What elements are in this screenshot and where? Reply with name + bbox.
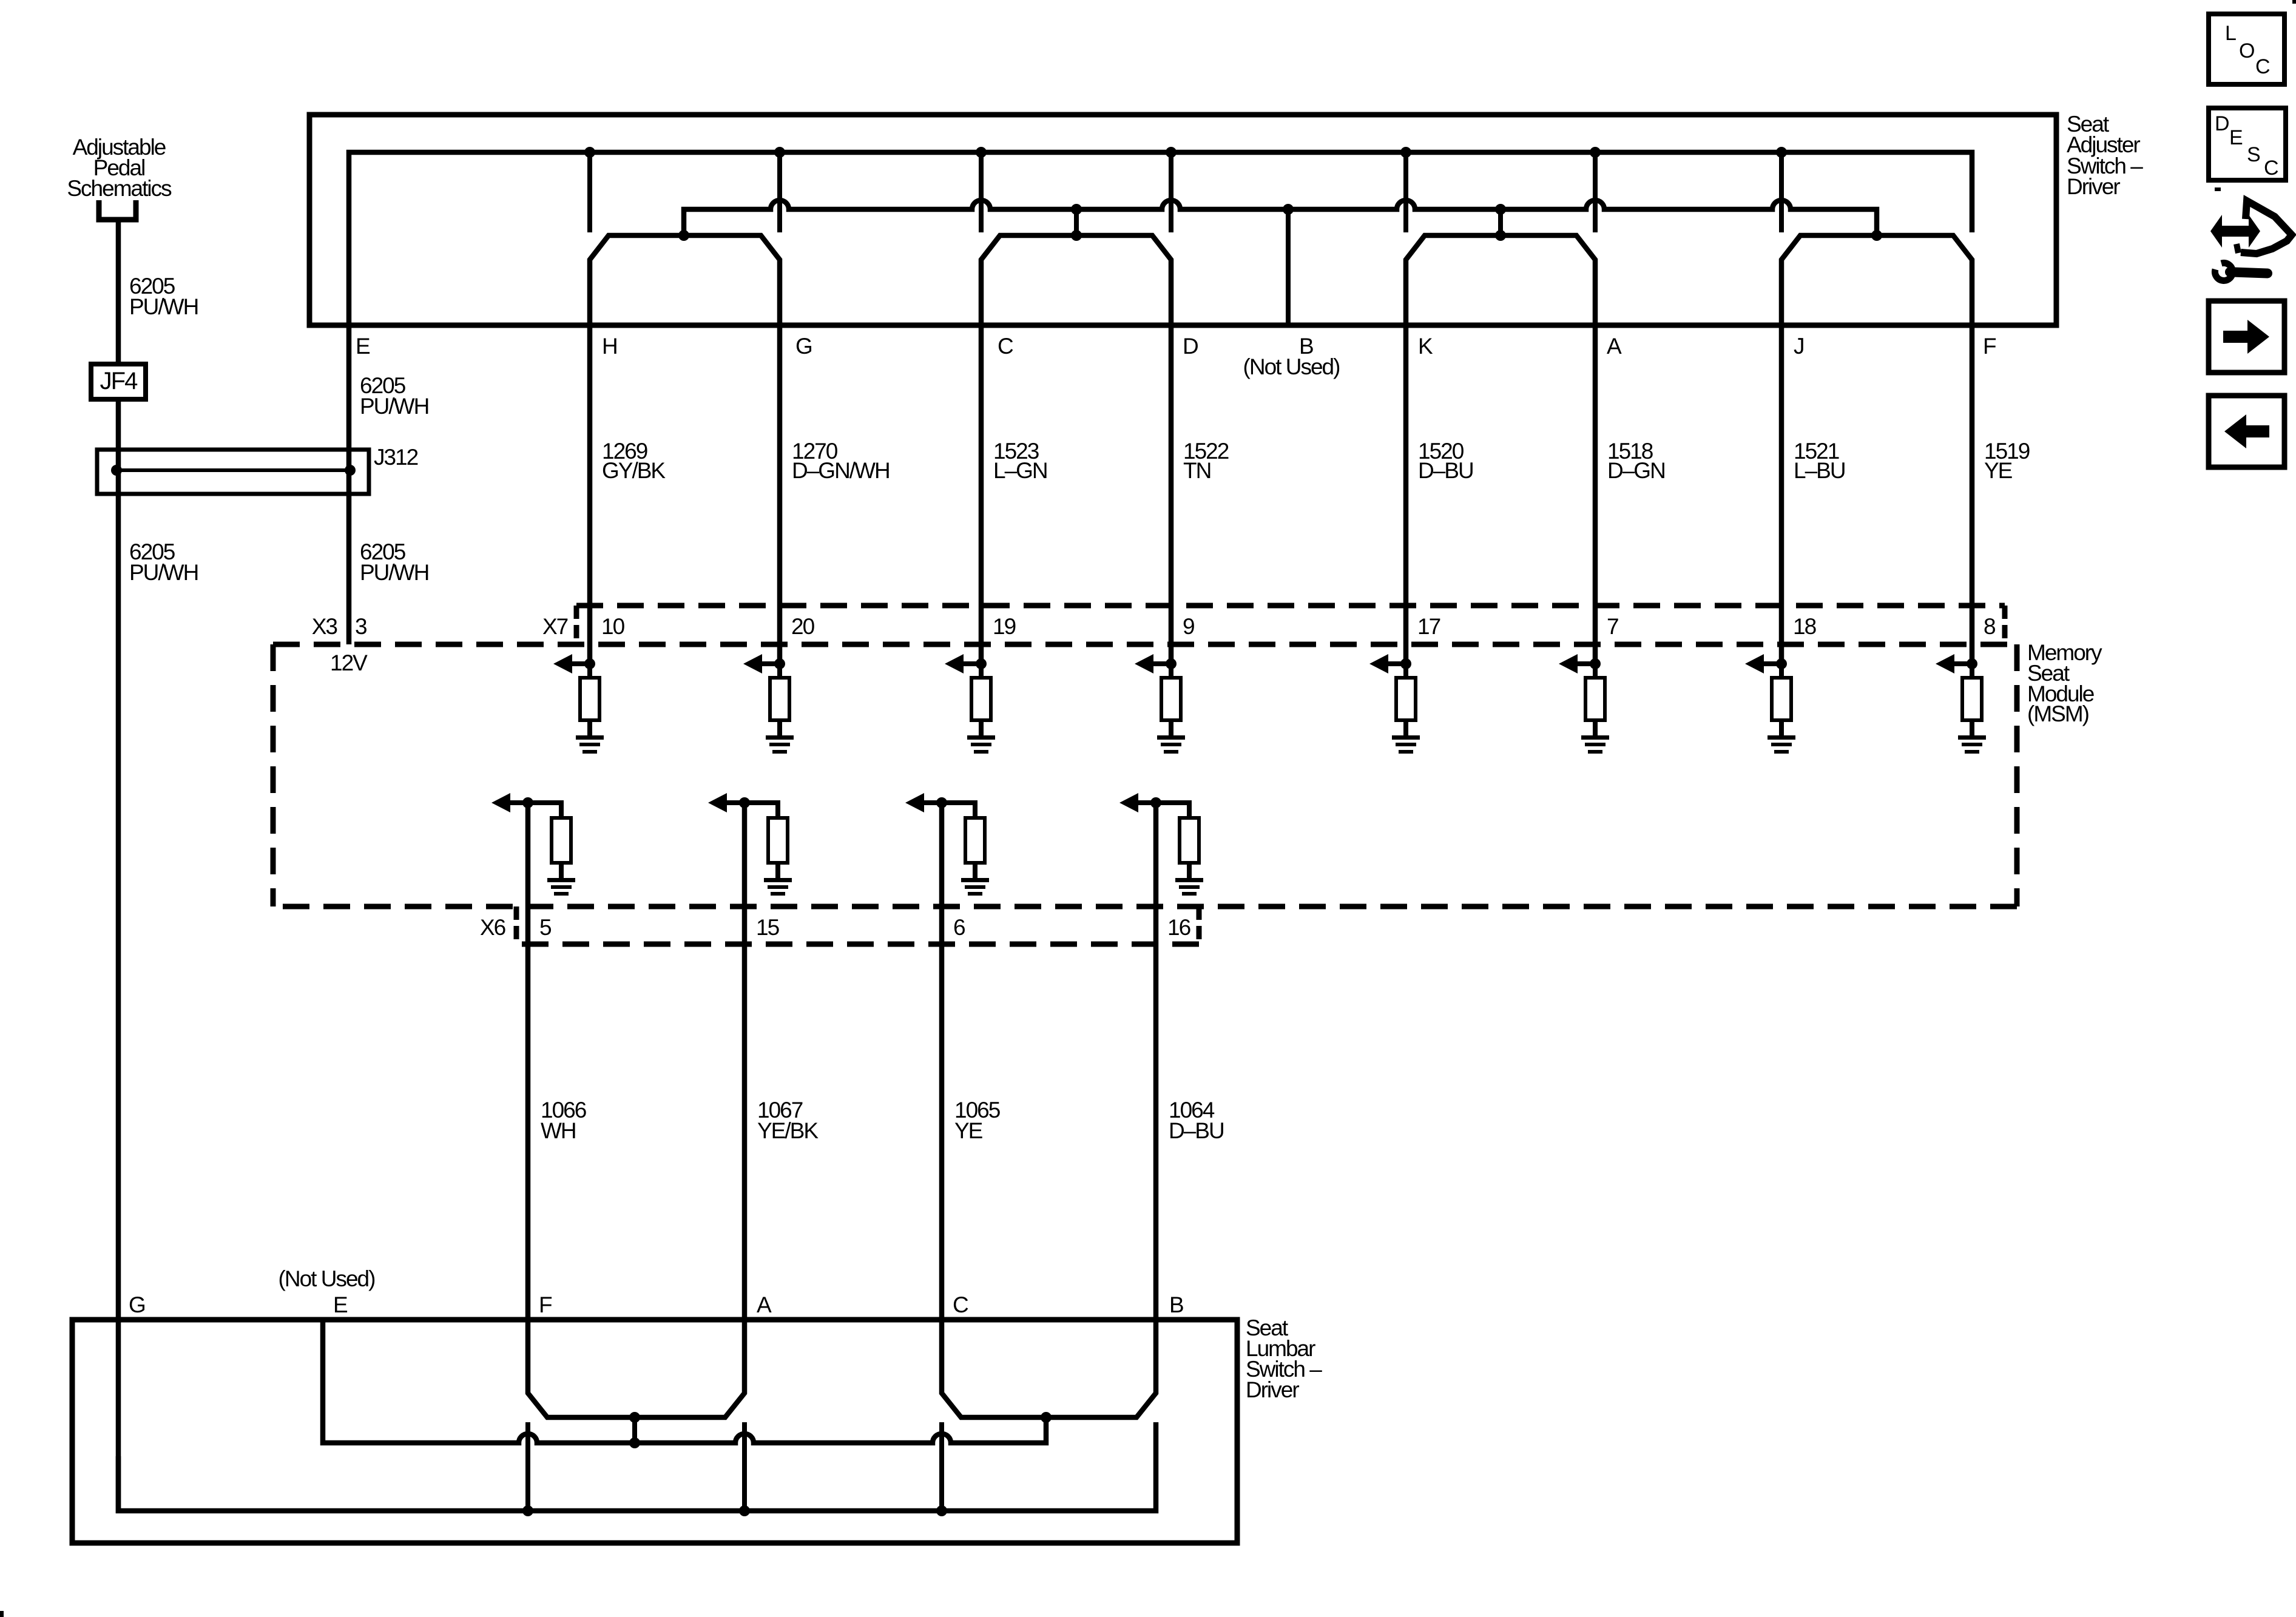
fixed contact stub F to ground bus (lumbar) <box>525 1422 530 1513</box>
wire resistor to ground (pin 5) <box>559 863 564 879</box>
svg-text:D–BU: D–BU <box>1418 458 1473 483</box>
connector X6 strip right dashed <box>1197 906 1202 944</box>
junction dot pin 10 <box>584 658 595 669</box>
svg-text:C: C <box>2264 157 2279 180</box>
svg-text:(Not Used): (Not Used) <box>279 1266 376 1291</box>
page corner speck bottom left <box>0 1611 4 1617</box>
stub jumper bus to K-A bar <box>1498 209 1503 235</box>
fuse JF4 <box>91 364 146 399</box>
svg-text:X7: X7 <box>542 614 568 639</box>
ground (pin 16) <box>1175 878 1203 882</box>
junction dot C-B bar at feed line rise <box>1041 1412 1052 1423</box>
svg-text:D–BU: D–BU <box>1169 1118 1224 1143</box>
junction dot pin 20 <box>774 658 785 669</box>
wire resistor R8 to ground <box>1970 720 1974 737</box>
ground (pin 6) <box>961 878 989 882</box>
svg-text:PU/WH: PU/WH <box>129 294 198 319</box>
wire pin 20 to resistor <box>777 664 782 678</box>
junction dot ground bus at F <box>522 1505 533 1516</box>
ground (pin 18) <box>1768 735 1795 740</box>
svg-text:Driver: Driver <box>2067 174 2120 199</box>
svg-text:J: J <box>1794 334 1804 359</box>
svg-text:YE/BK: YE/BK <box>757 1118 819 1143</box>
signal arrow out of MSM at pin 16 <box>1138 800 1156 805</box>
fixed contact stub A to ground bus (lumbar) <box>742 1422 747 1513</box>
fixed contact stub D <box>1169 152 1173 232</box>
junction dot pin 15 <box>739 797 750 808</box>
junction dot pin 5 <box>522 797 533 808</box>
wire pin B (not used) from jumper bus to box edge <box>1286 209 1291 325</box>
branch pin 5 to resistor <box>528 803 561 818</box>
svg-text:7: 7 <box>1607 614 1618 639</box>
ground (pin 19) <box>967 735 995 740</box>
svg-text:L: L <box>2225 22 2237 45</box>
junction dot supply bus at H <box>584 147 595 158</box>
svg-text:F: F <box>1983 334 1996 359</box>
junction dot supply bus at D <box>1166 147 1177 158</box>
svg-text:D–GN/WH: D–GN/WH <box>792 458 890 483</box>
connector service icon lower tick <box>2237 244 2238 253</box>
ground (pin 20) <box>766 735 794 740</box>
svg-text:D: D <box>1183 334 1198 359</box>
internal jumper bus (second line with hops and end drops) <box>684 200 1877 235</box>
wire pin 7 to resistor <box>1593 664 1598 678</box>
wire resistor to ground (pin 6) <box>973 863 977 879</box>
svg-text:GY/BK: GY/BK <box>602 458 666 483</box>
svg-text:B: B <box>1169 1292 1183 1317</box>
resistor (pull-down at pin 5) <box>552 818 571 863</box>
junction dot jumper bus at K-A stub <box>1495 204 1506 215</box>
junction dot supply bus at J <box>1776 147 1787 158</box>
junction dot K-A bar <box>1495 230 1506 241</box>
page corner speck top right <box>2292 0 2296 4</box>
signal arrow into MSM at pin 17 <box>1388 661 1406 666</box>
wire resistor R9 to ground <box>1169 720 1173 737</box>
signal arrow into MSM at pin 10 <box>572 661 590 666</box>
stub jumper bus to C-D bar <box>1074 209 1079 235</box>
svg-text:A: A <box>1607 334 1622 359</box>
svg-text:5: 5 <box>539 915 552 940</box>
rocker switch K-A (bar, diagonals and pin wires) <box>1406 235 1595 664</box>
Memory Seat Module dashed border left <box>271 644 276 906</box>
svg-text:C: C <box>953 1292 968 1317</box>
wire 6205 PU/WH from bracket to fuse JF4 <box>116 220 121 364</box>
svg-text:20: 20 <box>791 614 815 639</box>
resistor R20 (pull-down at pin 20) <box>770 678 789 720</box>
resistor R7 (pull-down at pin 7) <box>1585 678 1605 720</box>
resistor R19 (pull-down at pin 19) <box>971 678 991 720</box>
svg-text:E: E <box>333 1292 348 1317</box>
fixed contact stub A <box>1593 152 1598 232</box>
svg-text:A: A <box>757 1292 772 1317</box>
Memory Seat Module dashed border right <box>2014 644 2020 906</box>
wire resistor to ground (pin 16) <box>1187 863 1192 879</box>
junction dot feed line at F-A stub <box>629 1437 640 1448</box>
resistor (pull-down at pin 16) <box>1180 818 1199 863</box>
fixed contact stub C to ground bus (lumbar) <box>939 1422 944 1513</box>
ground (pin 9) <box>1157 735 1185 740</box>
svg-text:PU/WH: PU/WH <box>360 560 428 585</box>
connector X7 separator dashed <box>574 606 579 644</box>
junction dot pin 19 <box>976 658 987 669</box>
svg-text:8: 8 <box>1984 614 1995 639</box>
DESC reference box <box>2209 108 2286 180</box>
svg-text:YE: YE <box>954 1118 983 1143</box>
Seat Adjuster Switch - Driver outline box <box>309 115 2056 325</box>
fixed contact stub H <box>587 152 592 232</box>
svg-text:G: G <box>795 334 812 359</box>
connector X6 strip bottom dashed line <box>516 942 1199 947</box>
svg-text:L–BU: L–BU <box>1794 458 1845 483</box>
resistor (pull-down at pin 15) <box>768 818 788 863</box>
junction dot supply bus at C <box>976 147 987 158</box>
svg-text:3: 3 <box>355 614 366 639</box>
svg-text:E: E <box>356 334 370 359</box>
junction dot pin 8 <box>1967 658 1977 669</box>
svg-text:WH: WH <box>541 1118 576 1143</box>
resistor R17 (pull-down at pin 17) <box>1396 678 1416 720</box>
svg-text:18: 18 <box>1793 614 1816 639</box>
svg-text:S: S <box>2247 143 2261 166</box>
Memory Seat Module dashed border bottom <box>273 904 2017 910</box>
junction dot jumper bus at C-D stub <box>1071 204 1082 215</box>
svg-text:TN: TN <box>1183 458 1210 483</box>
signal arrow into MSM at pin 9 <box>1153 661 1171 666</box>
signal arrow into MSM at pin 19 <box>963 661 981 666</box>
connector X7 strip right dashed <box>2002 606 2008 644</box>
svg-text:6: 6 <box>953 915 965 940</box>
wire resistor R17 to ground <box>1403 720 1408 737</box>
svg-text:C: C <box>2255 55 2271 78</box>
rocker switch F-A (lumbar: pin wires, diagonals and bar) <box>528 803 745 1417</box>
connector X6 separator dashed <box>514 906 519 944</box>
signal arrow into MSM at pin 20 <box>761 661 780 666</box>
signal arrow into MSM at pin 7 <box>1577 661 1595 666</box>
fixed contact stub J <box>1779 152 1784 232</box>
ground (pin 15) <box>764 878 792 882</box>
rocker switch C-B (lumbar: pin wires, diagonals and bar) <box>942 803 1156 1417</box>
branch pin 15 to resistor <box>745 803 778 818</box>
ground bus inside lumbar switch with B contact stub <box>118 1422 1156 1511</box>
connector service icon double arrow <box>2221 226 2250 237</box>
junction dot pin 16 <box>1150 797 1161 808</box>
junction dot H-G bar to jumper bus <box>678 230 689 241</box>
svg-text:19: 19 <box>993 614 1016 639</box>
wire pin 8 to resistor <box>1970 664 1974 678</box>
svg-text:16: 16 <box>1167 915 1190 940</box>
junction dot supply bus at A <box>1590 147 1601 158</box>
ground (pin 5) <box>547 878 575 882</box>
off-page bracket to Adjustable Pedal Schematics <box>99 200 136 220</box>
ground (pin 7) <box>1581 735 1609 740</box>
connector X7 strip top dashed line <box>576 603 2005 609</box>
svg-text:X3: X3 <box>312 614 337 639</box>
junction dot ground bus at C <box>936 1505 947 1516</box>
svg-text:PU/WH: PU/WH <box>129 560 198 585</box>
svg-text:Schematics: Schematics <box>67 176 172 201</box>
junction dot supply bus at G <box>774 147 785 158</box>
junction dot pin 7 <box>1590 658 1601 669</box>
junction dot pin 6 <box>936 797 947 808</box>
svg-text:PU/WH: PU/WH <box>360 394 428 419</box>
wire pin 18 to resistor <box>1779 664 1784 678</box>
splice J312 bus bar <box>116 468 350 472</box>
signal arrow into MSM at pin 8 <box>1954 661 1972 666</box>
svg-text:JF4: JF4 <box>100 368 138 394</box>
wire resistor R7 to ground <box>1593 720 1598 737</box>
svg-text:(MSM): (MSM) <box>2027 701 2089 726</box>
resistor (pull-down at pin 6) <box>965 818 985 863</box>
speck below DESC box <box>2215 187 2221 191</box>
wire 6205 PU/WH from JF4 down to splice J312 and Seat Lumbar Switch pin G <box>116 399 121 1513</box>
signal arrow out of MSM at pin 6 <box>923 800 942 805</box>
signal arrow out of MSM at pin 5 <box>510 800 528 805</box>
connector service icon housing outline <box>2241 201 2292 254</box>
junction dot C-D bar <box>1071 230 1082 241</box>
junction dot pin 9 <box>1166 658 1177 669</box>
resistor R9 (pull-down at pin 9) <box>1161 678 1181 720</box>
svg-text:O: O <box>2239 39 2255 62</box>
fixed contact stub K <box>1403 152 1408 232</box>
svg-text:D: D <box>2215 112 2230 135</box>
wire pin 17 to resistor <box>1403 664 1408 678</box>
svg-text:L–GN: L–GN <box>993 458 1047 483</box>
splice pack J312 outline <box>97 450 369 494</box>
svg-text:15: 15 <box>756 915 780 940</box>
resistor R8 (pull-down at pin 8) <box>1962 678 1982 720</box>
svg-text:H: H <box>602 334 617 359</box>
wire pin 19 to resistor <box>979 664 984 678</box>
svg-text:C: C <box>998 334 1013 359</box>
junction dot J312 right <box>345 465 356 476</box>
svg-text:12V: 12V <box>330 650 368 675</box>
junction dot jumper bus at B <box>1283 204 1294 215</box>
svg-text:(Not Used): (Not Used) <box>1243 354 1340 379</box>
svg-text:17: 17 <box>1417 614 1440 639</box>
back arrow box <box>2209 396 2284 467</box>
internal feed line from pin E (with hops, rise to C-B bar) <box>323 1320 1046 1443</box>
ground (pin 8) <box>1958 735 1986 740</box>
svg-text:D–GN: D–GN <box>1607 458 1665 483</box>
ground (pin 10) <box>576 735 604 740</box>
signal arrow out of MSM at pin 15 <box>726 800 745 805</box>
rocker switch J-F (bar, diagonals and pin wires) <box>1781 235 1972 664</box>
fixed contact stub G <box>777 152 782 232</box>
stub F-A bar to feed line <box>632 1417 637 1443</box>
svg-text:J312: J312 <box>374 445 418 470</box>
svg-text:9: 9 <box>1183 614 1194 639</box>
resistor R18 (pull-down at pin 18) <box>1772 678 1791 720</box>
wire pin 9 to resistor <box>1169 664 1173 678</box>
junction dot F-A bar <box>629 1412 640 1423</box>
fixed contact stub C <box>979 152 984 232</box>
svg-text:YE: YE <box>1984 458 2013 483</box>
wire resistor R20 to ground <box>777 720 782 737</box>
junction dot J-F bar to jumper bus <box>1871 230 1882 241</box>
wire pin 10 to resistor <box>587 664 592 678</box>
junction dot pin 18 <box>1776 658 1787 669</box>
signal arrow into MSM at pin 18 <box>1763 661 1781 666</box>
svg-text:X6: X6 <box>480 915 505 940</box>
rocker switch H-G (bar, diagonals and pin wires) <box>590 235 780 664</box>
svg-text:K: K <box>1418 334 1433 359</box>
svg-text:E: E <box>2229 126 2243 149</box>
branch pin 16 to resistor <box>1156 803 1189 818</box>
Seat Lumbar Switch - Driver outline box <box>72 1320 1237 1543</box>
resistor R10 (pull-down at pin 10) <box>580 678 599 720</box>
svg-text:F: F <box>539 1292 552 1317</box>
ground (pin 17) <box>1392 735 1420 740</box>
junction dot supply bus at K <box>1400 147 1411 158</box>
svg-text:Driver: Driver <box>1246 1377 1299 1402</box>
rocker switch C-D (bar, diagonals and pin wires) <box>981 235 1171 664</box>
wire resistor to ground (pin 15) <box>775 863 780 879</box>
wire resistor R10 to ground <box>587 720 592 737</box>
internal supply bus from pin E (with E wire and F contact stub) <box>349 152 1972 644</box>
junction dot pin 17 <box>1400 658 1411 669</box>
forward arrow box <box>2209 301 2284 373</box>
wire resistor R18 to ground <box>1779 720 1784 737</box>
branch pin 6 to resistor <box>942 803 975 818</box>
svg-text:10: 10 <box>601 614 625 639</box>
junction dot ground bus at A <box>739 1505 750 1516</box>
wire resistor R19 to ground <box>979 720 984 737</box>
svg-text:G: G <box>129 1292 145 1317</box>
Memory Seat Module dashed border top <box>273 642 2017 647</box>
connector service icon wrench <box>2215 263 2232 280</box>
junction dot J312 left <box>111 465 122 476</box>
LOC reference box <box>2209 14 2284 84</box>
